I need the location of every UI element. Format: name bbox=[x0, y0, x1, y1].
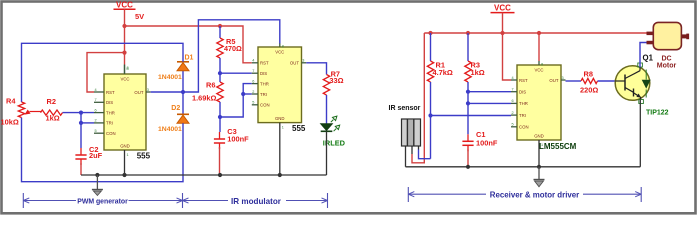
wire D1 to R4 top bbox=[22, 43, 184, 102]
resistor R8 220Ω bbox=[580, 70, 598, 95]
svg-text:3: 3 bbox=[302, 59, 304, 63]
capacitor C3 100nF bbox=[214, 117, 249, 175]
svg-text:33Ω: 33Ω bbox=[329, 76, 343, 85]
diode D1 1N4001 bbox=[158, 55, 194, 93]
svg-text:5: 5 bbox=[252, 101, 254, 105]
svg-text:10kΩ: 10kΩ bbox=[1, 118, 19, 127]
wire VCC branch to U1 RST bbox=[87, 53, 125, 92]
svg-text:2: 2 bbox=[95, 119, 97, 123]
wire ground bus (left) bbox=[81, 173, 327, 177]
svg-text:4.7kΩ: 4.7kΩ bbox=[433, 68, 453, 77]
svg-text:GND: GND bbox=[275, 116, 285, 121]
svg-text:8: 8 bbox=[541, 63, 543, 67]
wire VCC to IR sensor pin bbox=[412, 33, 424, 163]
IC U3 LM555CM bbox=[511, 61, 577, 167]
resistor R1 4.7kΩ bbox=[427, 33, 453, 116]
svg-text:Motor: Motor bbox=[657, 63, 677, 70]
svg-text:2: 2 bbox=[252, 90, 254, 94]
wire R7 to IR LED bbox=[326, 95, 328, 124]
motor DC Motor bbox=[647, 22, 690, 69]
diode D2 1N4001 bbox=[158, 92, 189, 133]
LED IRLED bbox=[321, 116, 346, 147]
svg-text:DIS: DIS bbox=[260, 71, 267, 76]
svg-text:THR: THR bbox=[106, 110, 115, 115]
svg-text:TRI: TRI bbox=[260, 92, 267, 97]
capacitor C1 100nF bbox=[462, 130, 497, 167]
wire IR LED to bus bbox=[326, 131, 328, 175]
svg-text:GND: GND bbox=[120, 144, 130, 149]
svg-text:DIS: DIS bbox=[519, 90, 526, 95]
svg-text:470Ω: 470Ω bbox=[224, 44, 242, 53]
resistor R3 1kΩ bbox=[465, 33, 485, 134]
wire U2 OUT to R7 bbox=[306, 63, 326, 75]
svg-text:1kΩ: 1kΩ bbox=[46, 114, 60, 123]
svg-text:CON: CON bbox=[519, 125, 529, 130]
svg-text:5: 5 bbox=[512, 123, 514, 127]
svg-text:VCC: VCC bbox=[116, 1, 133, 10]
wire U3 OUT to R8 bbox=[566, 80, 582, 82]
transistor Q1 TIP122 bbox=[615, 54, 668, 117]
svg-text:1N4001: 1N4001 bbox=[158, 74, 182, 81]
resistor R6 1.69kΩ bbox=[192, 73, 223, 117]
svg-text:TRI: TRI bbox=[106, 121, 113, 126]
svg-text:7: 7 bbox=[95, 98, 97, 102]
resistor R7 33Ω bbox=[323, 70, 343, 96]
svg-text:VCC: VCC bbox=[534, 68, 543, 73]
wire VCC stem to U1 pin8 bbox=[122, 9, 128, 74]
svg-text:OUT: OUT bbox=[549, 78, 558, 83]
wire Q1 collector to motor bbox=[640, 43, 647, 68]
svg-text:R2: R2 bbox=[47, 97, 56, 106]
wire VCC to U3 RST bbox=[503, 33, 512, 80]
svg-text:TRI: TRI bbox=[519, 113, 526, 118]
potentiometer R4 10kΩ bbox=[1, 97, 42, 127]
svg-text:RST: RST bbox=[106, 90, 115, 95]
wire U2 THR-TRI to C3 node bbox=[218, 84, 252, 120]
svg-text:6: 6 bbox=[512, 99, 514, 103]
svg-text:3: 3 bbox=[562, 76, 564, 80]
power VCC (right) bbox=[491, 4, 515, 13]
svg-text:PWM generator: PWM generator bbox=[77, 199, 128, 206]
svg-text:100nF: 100nF bbox=[227, 134, 249, 143]
svg-text:VCC: VCC bbox=[494, 4, 511, 13]
svg-text:2: 2 bbox=[512, 111, 514, 115]
svg-text:RST: RST bbox=[260, 61, 269, 66]
dimension: Receiver & motor driver bbox=[408, 187, 641, 202]
svg-text:GND: GND bbox=[534, 134, 544, 139]
svg-text:1: 1 bbox=[127, 153, 129, 157]
wire sensor output to U3 TRI bbox=[419, 113, 512, 158]
svg-text:CON: CON bbox=[260, 103, 270, 108]
svg-text:3: 3 bbox=[147, 88, 149, 92]
svg-text:IR modulator: IR modulator bbox=[231, 197, 282, 206]
capacitor C2 2uF bbox=[75, 145, 102, 175]
svg-text:D1: D1 bbox=[185, 55, 194, 62]
svg-text:220Ω: 220Ω bbox=[580, 86, 598, 95]
svg-text:OUT: OUT bbox=[290, 61, 299, 66]
svg-text:1: 1 bbox=[282, 126, 284, 130]
resistor R5 470Ω bbox=[217, 26, 242, 73]
svg-text:555: 555 bbox=[137, 152, 151, 161]
wire R8 to Q1 base bbox=[598, 80, 616, 82]
svg-text:R6: R6 bbox=[206, 81, 215, 90]
svg-text:2uF: 2uF bbox=[89, 151, 103, 160]
IC U1 555 (PWM) bbox=[94, 65, 151, 175]
IC U2 555 (modulator) bbox=[252, 43, 306, 175]
wire node R5-R6 to U2 DIS bbox=[218, 71, 252, 75]
svg-text:4: 4 bbox=[512, 76, 514, 80]
wire Q1 emitter to bus bbox=[639, 100, 641, 167]
svg-text:IR sensor: IR sensor bbox=[389, 105, 421, 112]
svg-text:1kΩ: 1kΩ bbox=[471, 68, 485, 77]
wire D2 to R4 bottom bbox=[22, 118, 184, 182]
svg-text:DIS: DIS bbox=[106, 100, 113, 105]
svg-text:THR: THR bbox=[519, 101, 528, 106]
svg-text:D2: D2 bbox=[171, 105, 180, 112]
svg-text:OUT: OUT bbox=[134, 90, 143, 95]
IR sensor U4 bbox=[389, 105, 421, 167]
svg-text:DC: DC bbox=[661, 56, 671, 63]
svg-text:1N4001: 1N4001 bbox=[158, 126, 182, 133]
svg-text:4: 4 bbox=[95, 88, 97, 92]
wire R2 to U1 THR bbox=[63, 111, 95, 115]
svg-text:6: 6 bbox=[95, 108, 97, 112]
svg-text:7: 7 bbox=[252, 69, 254, 73]
svg-text:VCC: VCC bbox=[275, 50, 284, 55]
svg-text:8: 8 bbox=[127, 66, 129, 70]
svg-text:4: 4 bbox=[252, 59, 254, 63]
svg-text:TIP122: TIP122 bbox=[646, 110, 669, 117]
svg-text:R4: R4 bbox=[6, 97, 16, 106]
wire rail to U3 VCC pin bbox=[538, 33, 540, 61]
svg-text:5V: 5V bbox=[135, 12, 144, 21]
wire VCC rail (right) bbox=[424, 13, 646, 35]
svg-text:5: 5 bbox=[95, 129, 97, 133]
svg-text:7: 7 bbox=[512, 88, 514, 92]
svg-text:THR: THR bbox=[260, 81, 269, 86]
svg-text:6: 6 bbox=[252, 79, 254, 83]
svg-text:1.69kΩ: 1.69kΩ bbox=[192, 94, 216, 103]
wire VCC rail to U2 RST bbox=[125, 24, 252, 63]
power VCC (left, 5V) bbox=[114, 1, 145, 22]
resistor R2 1kΩ bbox=[41, 97, 63, 123]
svg-text:LM555CM: LM555CM bbox=[539, 142, 577, 151]
ground (left) bbox=[92, 175, 103, 196]
svg-text:VCC: VCC bbox=[120, 77, 129, 82]
svg-text:R8: R8 bbox=[584, 70, 593, 79]
ground (right) bbox=[534, 167, 545, 187]
wire U1 OUT to U2 VCC bbox=[151, 20, 280, 94]
wire ground bus (right) bbox=[406, 165, 641, 169]
svg-text:RST: RST bbox=[519, 78, 528, 83]
svg-text:CON: CON bbox=[106, 131, 116, 136]
svg-text:Receiver & motor driver: Receiver & motor driver bbox=[490, 191, 579, 200]
wire R3-C1 node to U3 DIS and THR bbox=[466, 90, 511, 106]
svg-text:555: 555 bbox=[292, 124, 306, 133]
svg-text:8: 8 bbox=[282, 45, 284, 49]
svg-text:Q1: Q1 bbox=[643, 54, 654, 63]
dimension: PWM generator bbox=[23, 193, 327, 208]
svg-text:100nF: 100nF bbox=[476, 139, 498, 148]
wire U1 TRI / C2 node bbox=[79, 113, 94, 148]
